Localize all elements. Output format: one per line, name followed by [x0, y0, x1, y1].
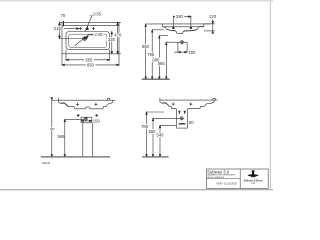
floor C — [41, 156, 110, 158]
svg-text:4A70 65 01 CERAMICPLUS: 4A70 65 01 CERAMICPLUS — [207, 176, 224, 179]
svg-text:70: 70 — [61, 13, 66, 18]
dim 650 — [62, 64, 119, 66]
anchor dots — [172, 27, 174, 29]
svg-text:150: 150 — [188, 50, 196, 55]
trap rect — [175, 109, 177, 128]
svg-text:1748: 1748 — [251, 183, 255, 185]
floor B — [142, 78, 170, 80]
dim 70 tick — [63, 21, 65, 26]
ext line to 565 — [65, 118, 84, 120]
trap pipes to floor — [82, 123, 84, 157]
left tick — [159, 98, 161, 101]
dim 150 — [81, 120, 92, 122]
left tick — [58, 98, 60, 101]
inner contour — [61, 103, 68, 106]
anchor dots lower — [77, 115, 79, 117]
bowl inner contour — [69, 34, 107, 47]
outlet symbol — [179, 116, 184, 121]
view B labels — [175, 14, 185, 19]
dim 215 horizontal — [64, 28, 79, 30]
underside profile — [59, 100, 113, 109]
svg-text:Villeroy & Boch: Villeroy & Boch — [244, 178, 263, 182]
svg-text:80: 80 — [189, 120, 194, 125]
right step bump — [213, 99, 215, 101]
svg-text:650: 650 — [87, 63, 95, 68]
svg-text:850: 850 — [142, 44, 150, 49]
underside profile — [160, 100, 214, 109]
bottom ext lines — [61, 54, 63, 66]
leader d45 — [75, 34, 90, 46]
detail dim 150 — [177, 42, 179, 52]
svg-text:650: 650 — [149, 129, 157, 134]
anchor marks — [76, 103, 97, 106]
right dims ext lines — [119, 21, 121, 23]
svg-text:VER / 31.10.2020: VER / 31.10.2020 — [216, 183, 237, 186]
inner contour — [162, 103, 169, 106]
deck line — [62, 24, 119, 26]
rim line — [59, 99, 116, 101]
svg-text:540: 540 — [157, 133, 165, 138]
svg-text:215: 215 — [54, 26, 62, 31]
floor D — [142, 156, 169, 158]
svg-text:∅45: ∅45 — [94, 32, 103, 37]
basin body — [162, 26, 203, 28]
80 dim arrows — [179, 111, 181, 113]
dim 280 — [172, 16, 174, 27]
mounting detail line — [166, 41, 188, 43]
svg-text:280: 280 — [176, 14, 184, 19]
dim 328 line — [111, 32, 113, 54]
left dim 850 — [51, 100, 53, 157]
view A arrowheads — [111, 32, 113, 34]
right step bump — [107, 99, 109, 101]
svg-text:120: 120 — [209, 14, 217, 19]
top line left extension — [60, 21, 63, 23]
svg-text:Subway 3.0: Subway 3.0 — [207, 169, 230, 174]
svg-text:470: 470 — [114, 33, 122, 38]
svg-text:1340.06: 1340.06 — [42, 162, 51, 165]
svg-text:150: 150 — [93, 119, 101, 124]
target symbol — [180, 40, 185, 45]
V&B logo — [248, 170, 259, 177]
svg-text:∅35: ∅35 — [93, 12, 102, 17]
target symbol — [84, 117, 88, 121]
svg-text:565: 565 — [158, 61, 166, 66]
dim 215 vertical line — [59, 22, 61, 38]
left dims: 850 795 680 565 — [145, 24, 147, 79]
dim 120 — [204, 23, 215, 25]
bowl rounded rect — [66, 32, 110, 50]
leader d35 — [85, 16, 92, 32]
dim 555 — [66, 59, 110, 61]
svg-text:850: 850 — [50, 127, 55, 131]
anchor marks — [172, 103, 193, 106]
drain cross — [82, 36, 86, 40]
tap holes — [79, 27, 95, 30]
svg-text:565: 565 — [58, 134, 66, 139]
view D labels — [140, 124, 150, 129]
rim line — [153, 23, 211, 25]
outer rect — [62, 22, 119, 54]
dim 470 line — [117, 22, 119, 53]
view C labels — [50, 127, 55, 131]
dim 565 — [64, 119, 66, 157]
rim line — [160, 99, 218, 101]
svg-text:328: 328 — [108, 37, 116, 42]
left dims 785 650 540 — [146, 112, 148, 157]
drain ext line — [60, 38, 85, 40]
trap detail rect — [81, 117, 92, 123]
